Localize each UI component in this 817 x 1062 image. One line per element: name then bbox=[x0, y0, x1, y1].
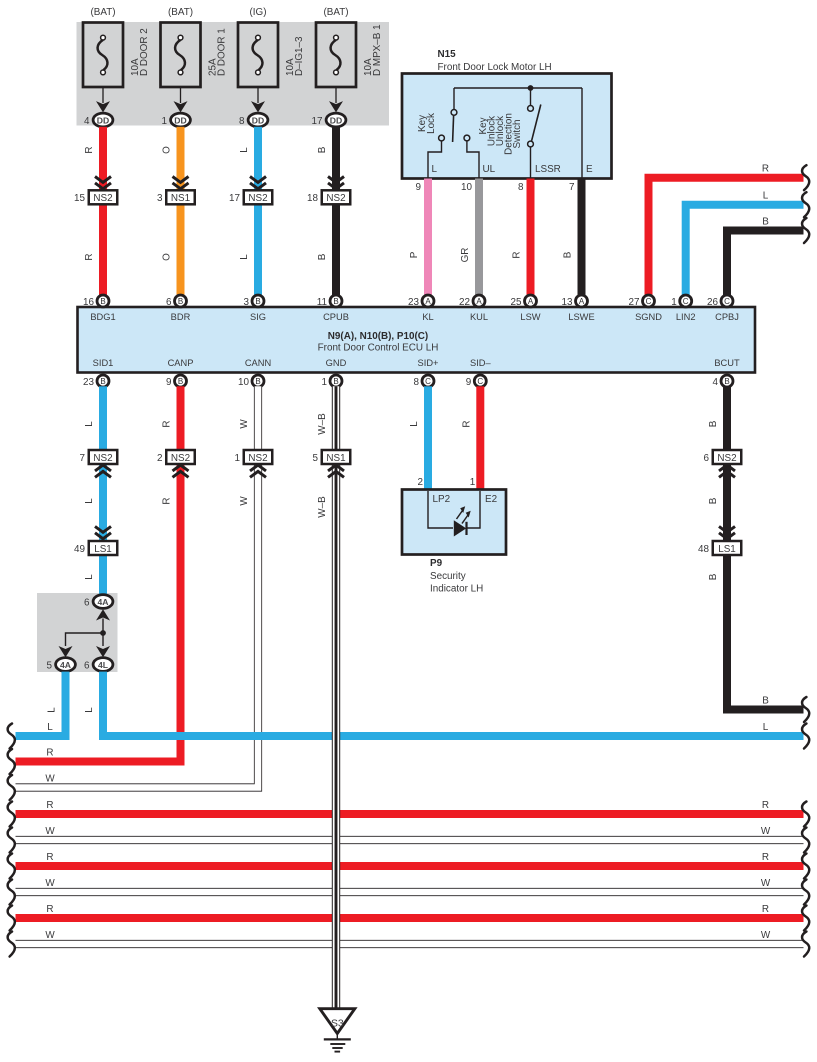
wire break W left bbox=[8, 828, 15, 853]
svg-text:W: W bbox=[761, 826, 771, 837]
arrow from junction to 4A bbox=[96, 609, 110, 620]
wire break R right bbox=[802, 906, 809, 931]
svg-text:KUL: KUL bbox=[470, 312, 488, 322]
bus wire R bbox=[16, 810, 804, 818]
svg-text:2: 2 bbox=[157, 453, 163, 464]
wire R from N15 to ECU bbox=[527, 179, 535, 297]
svg-text:R: R bbox=[162, 420, 173, 427]
svg-text:16: 16 bbox=[83, 297, 94, 308]
svg-text:B: B bbox=[100, 377, 105, 386]
svg-text:CPBJ: CPBJ bbox=[715, 312, 739, 322]
svg-text:15: 15 bbox=[74, 193, 85, 204]
wire R from CANP to left edge bbox=[16, 386, 181, 761]
connector NS1 pin 5 bbox=[322, 450, 351, 464]
unlock detection switch bbox=[530, 88, 532, 105]
svg-text:W–B: W–B bbox=[317, 496, 328, 518]
svg-text:A: A bbox=[528, 297, 534, 306]
svg-text:A: A bbox=[425, 297, 431, 306]
P9 internal wiring bbox=[428, 491, 453, 528]
ground symbol bbox=[324, 1038, 351, 1040]
svg-text:Lock: Lock bbox=[426, 113, 437, 134]
wire B from DD to ECU bbox=[332, 127, 340, 296]
wire L from DD to ECU bbox=[254, 127, 262, 296]
svg-text:W: W bbox=[761, 878, 771, 889]
bus wire W bbox=[16, 836, 804, 844]
svg-text:LP2: LP2 bbox=[433, 494, 451, 505]
ground point S3 bbox=[320, 1009, 355, 1034]
wire break L left bbox=[8, 724, 15, 749]
svg-text:5: 5 bbox=[47, 660, 53, 671]
connector DD pin 1 bbox=[171, 113, 191, 127]
wire break R right bbox=[802, 854, 809, 879]
svg-text:B: B bbox=[317, 253, 328, 260]
wire break R left bbox=[8, 802, 15, 827]
svg-text:B: B bbox=[762, 216, 769, 227]
svg-text:C: C bbox=[646, 297, 652, 306]
wire L from 4A-5 to left edge bbox=[16, 672, 66, 736]
svg-text:W: W bbox=[239, 496, 250, 506]
svg-text:NS1: NS1 bbox=[326, 453, 346, 464]
svg-text:B: B bbox=[255, 377, 260, 386]
wire GR from N15 to ECU bbox=[475, 179, 483, 297]
bus wire R bbox=[16, 862, 804, 870]
svg-text:B: B bbox=[708, 497, 719, 504]
svg-text:SID+: SID+ bbox=[418, 358, 439, 368]
svg-text:KL: KL bbox=[422, 312, 433, 322]
svg-text:B: B bbox=[178, 297, 183, 306]
wire break L right bbox=[802, 724, 809, 749]
svg-text:L: L bbox=[84, 574, 95, 580]
svg-text:23: 23 bbox=[408, 297, 419, 308]
svg-text:6: 6 bbox=[704, 453, 710, 464]
svg-text:L: L bbox=[84, 421, 95, 427]
svg-text:W: W bbox=[761, 930, 771, 941]
N15 junction node bbox=[528, 85, 534, 91]
svg-text:4: 4 bbox=[84, 116, 90, 127]
arrow into connector DD bbox=[180, 87, 182, 103]
svg-text:26: 26 bbox=[707, 297, 718, 308]
svg-text:4A: 4A bbox=[98, 597, 109, 607]
svg-text:L: L bbox=[763, 191, 769, 202]
svg-text:(BAT): (BAT) bbox=[168, 7, 193, 18]
svg-text:R: R bbox=[46, 800, 53, 811]
svg-text:8: 8 bbox=[518, 182, 524, 193]
fuse 10A D MPX–B 1 bbox=[316, 23, 356, 88]
svg-text:L: L bbox=[84, 707, 95, 713]
ECU top pin 6(B) BDR bbox=[175, 295, 187, 307]
svg-text:CPUB: CPUB bbox=[323, 312, 349, 322]
connector NS2 pin 15 bbox=[95, 177, 111, 189]
wire R from DD to ECU bbox=[99, 127, 107, 296]
bus wire R bbox=[16, 914, 804, 922]
svg-text:D MPX–B 1: D MPX–B 1 bbox=[372, 24, 383, 76]
svg-text:BDG1: BDG1 bbox=[90, 312, 115, 322]
key lock contact to pin L bbox=[439, 135, 445, 141]
svg-text:Front Door Control ECU LH: Front Door Control ECU LH bbox=[318, 343, 439, 354]
svg-text:A: A bbox=[476, 297, 482, 306]
wire break B right bbox=[802, 697, 809, 722]
svg-text:B: B bbox=[708, 573, 719, 580]
svg-text:6: 6 bbox=[166, 297, 172, 308]
security indicator P9 body bbox=[402, 490, 506, 555]
svg-text:R: R bbox=[162, 497, 173, 504]
svg-text:P: P bbox=[409, 251, 420, 258]
svg-text:3: 3 bbox=[244, 297, 250, 308]
svg-text:6: 6 bbox=[84, 597, 90, 608]
svg-text:W: W bbox=[45, 930, 55, 941]
svg-text:B: B bbox=[563, 251, 574, 258]
connector NS1 pin 3 bbox=[173, 177, 189, 189]
LED D1 bbox=[454, 520, 466, 536]
svg-text:S3: S3 bbox=[331, 1019, 344, 1030]
wire break R left bbox=[8, 906, 15, 931]
svg-text:11: 11 bbox=[317, 297, 328, 308]
svg-text:R: R bbox=[84, 253, 95, 260]
svg-text:E2: E2 bbox=[485, 494, 497, 505]
svg-text:L: L bbox=[763, 722, 769, 733]
svg-text:C: C bbox=[724, 297, 730, 306]
wire break W right bbox=[802, 932, 809, 957]
svg-text:O: O bbox=[162, 253, 173, 261]
svg-text:L: L bbox=[432, 164, 438, 175]
svg-text:1: 1 bbox=[322, 377, 328, 388]
svg-text:B: B bbox=[100, 297, 105, 306]
svg-text:SID1: SID1 bbox=[93, 358, 114, 368]
fuse 10A D–IG1–3 bbox=[238, 23, 278, 88]
arrow into connector 4L pin 6 bbox=[96, 646, 110, 657]
svg-text:E: E bbox=[586, 164, 593, 175]
svg-text:R: R bbox=[762, 904, 769, 915]
ECU top pin 22(A) KUL bbox=[473, 295, 485, 307]
svg-text:5: 5 bbox=[313, 453, 319, 464]
svg-text:SID–: SID– bbox=[470, 358, 491, 368]
front door lock motor N15 body bbox=[402, 74, 612, 179]
wire break W left bbox=[8, 880, 15, 905]
svg-text:3: 3 bbox=[157, 193, 163, 204]
arrow into connector DD bbox=[257, 87, 259, 103]
svg-text:1: 1 bbox=[235, 453, 241, 464]
svg-text:B: B bbox=[333, 377, 338, 386]
arrow into connector DD bbox=[335, 87, 337, 103]
svg-text:8: 8 bbox=[239, 116, 245, 127]
svg-text:LIN2: LIN2 bbox=[676, 312, 696, 322]
wire B from N15 to ECU bbox=[578, 179, 586, 297]
svg-text:LSSR: LSSR bbox=[535, 164, 561, 175]
svg-text:4L: 4L bbox=[98, 660, 108, 670]
svg-text:P9: P9 bbox=[430, 558, 443, 569]
svg-text:Indicator LH: Indicator LH bbox=[430, 584, 483, 595]
svg-text:Front Door Lock Motor LH: Front Door Lock Motor LH bbox=[438, 62, 552, 73]
fuse 25A D DOOR 1 bbox=[161, 23, 201, 88]
N15 wire to pin E bbox=[581, 88, 583, 179]
svg-text:(BAT): (BAT) bbox=[323, 7, 348, 18]
svg-text:Security: Security bbox=[430, 571, 466, 582]
junction block gray background bbox=[37, 593, 118, 672]
svg-text:NS2: NS2 bbox=[93, 193, 112, 204]
svg-text:L: L bbox=[239, 147, 250, 153]
bus wire W bbox=[16, 940, 804, 948]
ECU top pin 27(C) SGND bbox=[643, 295, 655, 307]
svg-text:9: 9 bbox=[466, 377, 472, 388]
wire W from CANN to left edge bbox=[16, 386, 259, 787]
ECU top pin 26(C) CPBJ bbox=[721, 295, 733, 307]
svg-text:7: 7 bbox=[569, 182, 575, 193]
svg-text:W–B: W–B bbox=[317, 413, 328, 435]
svg-text:DD: DD bbox=[97, 115, 109, 125]
svg-text:48: 48 bbox=[698, 544, 709, 555]
svg-text:NS2: NS2 bbox=[93, 453, 112, 464]
connector NS2 pin 17 bbox=[250, 177, 266, 189]
connector 4A pin 6 bbox=[93, 595, 113, 609]
svg-text:R: R bbox=[762, 852, 769, 863]
svg-text:7: 7 bbox=[80, 453, 86, 464]
svg-text:23: 23 bbox=[83, 377, 94, 388]
connector DD pin 17 bbox=[326, 113, 346, 127]
svg-text:B: B bbox=[178, 377, 183, 386]
svg-text:49: 49 bbox=[74, 544, 85, 555]
svg-text:CANN: CANN bbox=[245, 358, 271, 368]
svg-text:R: R bbox=[512, 251, 523, 258]
ECU top pin 16(B) BDG1 bbox=[97, 295, 109, 307]
svg-text:L: L bbox=[47, 722, 53, 733]
wire L from SID+ to P9 bbox=[424, 386, 432, 489]
wire W-B from GND to ground S3 bbox=[332, 386, 340, 1009]
ECU top pin 25(A) LSW bbox=[525, 295, 537, 307]
junction branch wire bbox=[66, 633, 104, 646]
svg-text:R: R bbox=[46, 904, 53, 915]
svg-text:LSWE: LSWE bbox=[568, 312, 594, 322]
wire break W left bbox=[8, 775, 15, 800]
svg-text:C: C bbox=[425, 377, 431, 386]
wire break W right bbox=[802, 828, 809, 853]
svg-text:R: R bbox=[762, 164, 769, 175]
svg-text:N15: N15 bbox=[438, 49, 457, 60]
svg-text:W: W bbox=[45, 826, 55, 837]
svg-text:2: 2 bbox=[418, 477, 424, 488]
svg-text:GND: GND bbox=[326, 358, 347, 368]
wire break W right bbox=[802, 880, 809, 905]
svg-text:L: L bbox=[47, 707, 58, 713]
wire break R right bbox=[802, 802, 809, 827]
N15 internal bus wire bbox=[454, 87, 582, 89]
svg-text:25: 25 bbox=[511, 297, 522, 308]
svg-text:R: R bbox=[46, 852, 53, 863]
svg-text:DD: DD bbox=[174, 115, 186, 125]
svg-text:D DOOR 1: D DOOR 1 bbox=[217, 28, 228, 76]
junction node bbox=[100, 630, 106, 636]
connector DD pin 4 bbox=[93, 113, 113, 127]
svg-text:B: B bbox=[724, 377, 729, 386]
svg-text:UL: UL bbox=[483, 164, 496, 175]
connector DD pin 8 bbox=[248, 113, 268, 127]
ECU top pin 23(A) KL bbox=[422, 295, 434, 307]
wire break W left bbox=[8, 932, 15, 957]
svg-text:8: 8 bbox=[414, 377, 420, 388]
connector 4A pin 5 bbox=[56, 658, 76, 672]
svg-text:R: R bbox=[84, 146, 95, 153]
svg-text:B: B bbox=[762, 695, 769, 706]
wire B from BCUT to right edge bbox=[727, 386, 804, 709]
svg-text:W: W bbox=[45, 774, 55, 785]
bus wire W bbox=[16, 888, 804, 896]
svg-text:NS1: NS1 bbox=[171, 193, 191, 204]
svg-text:9: 9 bbox=[416, 182, 422, 193]
connector NS2 pin 2 bbox=[166, 450, 195, 464]
svg-text:SGND: SGND bbox=[635, 312, 662, 322]
svg-text:SIG: SIG bbox=[250, 312, 266, 322]
wire P from N15 to ECU bbox=[424, 179, 432, 297]
svg-text:NS2: NS2 bbox=[171, 453, 190, 464]
svg-text:R: R bbox=[46, 748, 53, 759]
svg-text:6: 6 bbox=[84, 660, 90, 671]
svg-text:R: R bbox=[461, 420, 472, 427]
wire L from 4L-6 to right edge bbox=[103, 672, 804, 736]
svg-text:L: L bbox=[239, 254, 250, 260]
svg-text:A: A bbox=[579, 297, 585, 306]
svg-text:(IG): (IG) bbox=[249, 7, 266, 18]
svg-text:17: 17 bbox=[229, 193, 240, 204]
svg-text:NS2: NS2 bbox=[717, 453, 736, 464]
svg-text:17: 17 bbox=[312, 116, 323, 127]
key lock switch bbox=[453, 88, 455, 109]
arrow into connector DD bbox=[102, 87, 104, 103]
svg-text:22: 22 bbox=[459, 297, 470, 308]
svg-text:10: 10 bbox=[461, 182, 472, 193]
svg-text:B: B bbox=[317, 146, 328, 153]
svg-text:18: 18 bbox=[307, 193, 318, 204]
svg-text:B: B bbox=[333, 297, 338, 306]
svg-text:BDR: BDR bbox=[171, 312, 191, 322]
svg-text:(BAT): (BAT) bbox=[90, 7, 115, 18]
wire O from DD to ECU bbox=[177, 127, 185, 296]
key unlock contact to pin UL bbox=[464, 135, 470, 141]
fuse 10A D DOOR 2 bbox=[83, 23, 123, 88]
svg-text:D–IG1–3: D–IG1–3 bbox=[294, 36, 305, 76]
svg-text:1: 1 bbox=[162, 116, 168, 127]
ECU top pin 3(B) SIG bbox=[252, 295, 264, 307]
wire L from SID1 bbox=[99, 386, 107, 596]
svg-text:C: C bbox=[477, 377, 483, 386]
svg-text:LS1: LS1 bbox=[94, 544, 112, 555]
wire R to SGND bbox=[649, 178, 804, 296]
svg-text:W: W bbox=[239, 419, 250, 429]
svg-text:O: O bbox=[162, 146, 173, 154]
svg-text:CANP: CANP bbox=[168, 358, 194, 368]
svg-text:4: 4 bbox=[713, 377, 719, 388]
connector NS2 pin 6 bbox=[713, 450, 742, 464]
connector NS2 pin 7 bbox=[89, 450, 118, 464]
svg-text:LS1: LS1 bbox=[718, 544, 736, 555]
svg-text:N9(A), N10(B), P10(C): N9(A), N10(B), P10(C) bbox=[328, 331, 428, 342]
svg-text:Switch: Switch bbox=[512, 119, 523, 148]
svg-text:NS2: NS2 bbox=[326, 193, 345, 204]
svg-text:R: R bbox=[762, 800, 769, 811]
svg-text:1: 1 bbox=[671, 297, 677, 308]
connector NS2 pin 1 bbox=[244, 450, 273, 464]
svg-text:NS2: NS2 bbox=[248, 453, 267, 464]
ECU top pin 1(C) LIN2 bbox=[680, 295, 692, 307]
fuse panel gray background bbox=[77, 22, 390, 126]
connector LS1 pin 49 bbox=[95, 526, 111, 538]
svg-text:B: B bbox=[708, 420, 719, 427]
svg-text:LSW: LSW bbox=[520, 312, 540, 322]
svg-text:B: B bbox=[255, 297, 260, 306]
front door control ECU body bbox=[78, 307, 756, 373]
svg-text:NS2: NS2 bbox=[248, 193, 267, 204]
svg-text:DD: DD bbox=[252, 115, 264, 125]
wire R from SID- to P9 bbox=[476, 386, 484, 489]
svg-text:W: W bbox=[45, 878, 55, 889]
svg-text:27: 27 bbox=[629, 297, 640, 308]
svg-text:9: 9 bbox=[166, 377, 172, 388]
ECU top pin 13(A) LSWE bbox=[576, 295, 588, 307]
svg-text:L: L bbox=[84, 498, 95, 504]
connector NS2 pin 18 bbox=[328, 177, 344, 189]
arrow into connector 4A pin 5 bbox=[59, 646, 73, 657]
ECU top pin 11(B) CPUB bbox=[330, 295, 342, 307]
svg-text:C: C bbox=[683, 297, 689, 306]
wire break R left bbox=[8, 749, 15, 774]
wire L to LIN2 bbox=[686, 205, 804, 296]
svg-text:L: L bbox=[409, 421, 420, 427]
connector 4L pin 6 bbox=[93, 658, 113, 672]
svg-text:BCUT: BCUT bbox=[714, 358, 740, 368]
svg-text:10: 10 bbox=[238, 377, 249, 388]
wire break R left bbox=[8, 854, 15, 879]
svg-text:GR: GR bbox=[460, 248, 471, 263]
svg-text:4A: 4A bbox=[60, 660, 71, 670]
LED emission arrows bbox=[457, 511, 463, 520]
connector LS1 pin 48 bbox=[719, 526, 735, 538]
svg-text:1: 1 bbox=[470, 477, 476, 488]
wire B to CPBJ bbox=[727, 231, 804, 297]
svg-text:D DOOR 2: D DOOR 2 bbox=[139, 28, 150, 76]
svg-text:DD: DD bbox=[330, 115, 342, 125]
svg-text:13: 13 bbox=[562, 297, 573, 308]
